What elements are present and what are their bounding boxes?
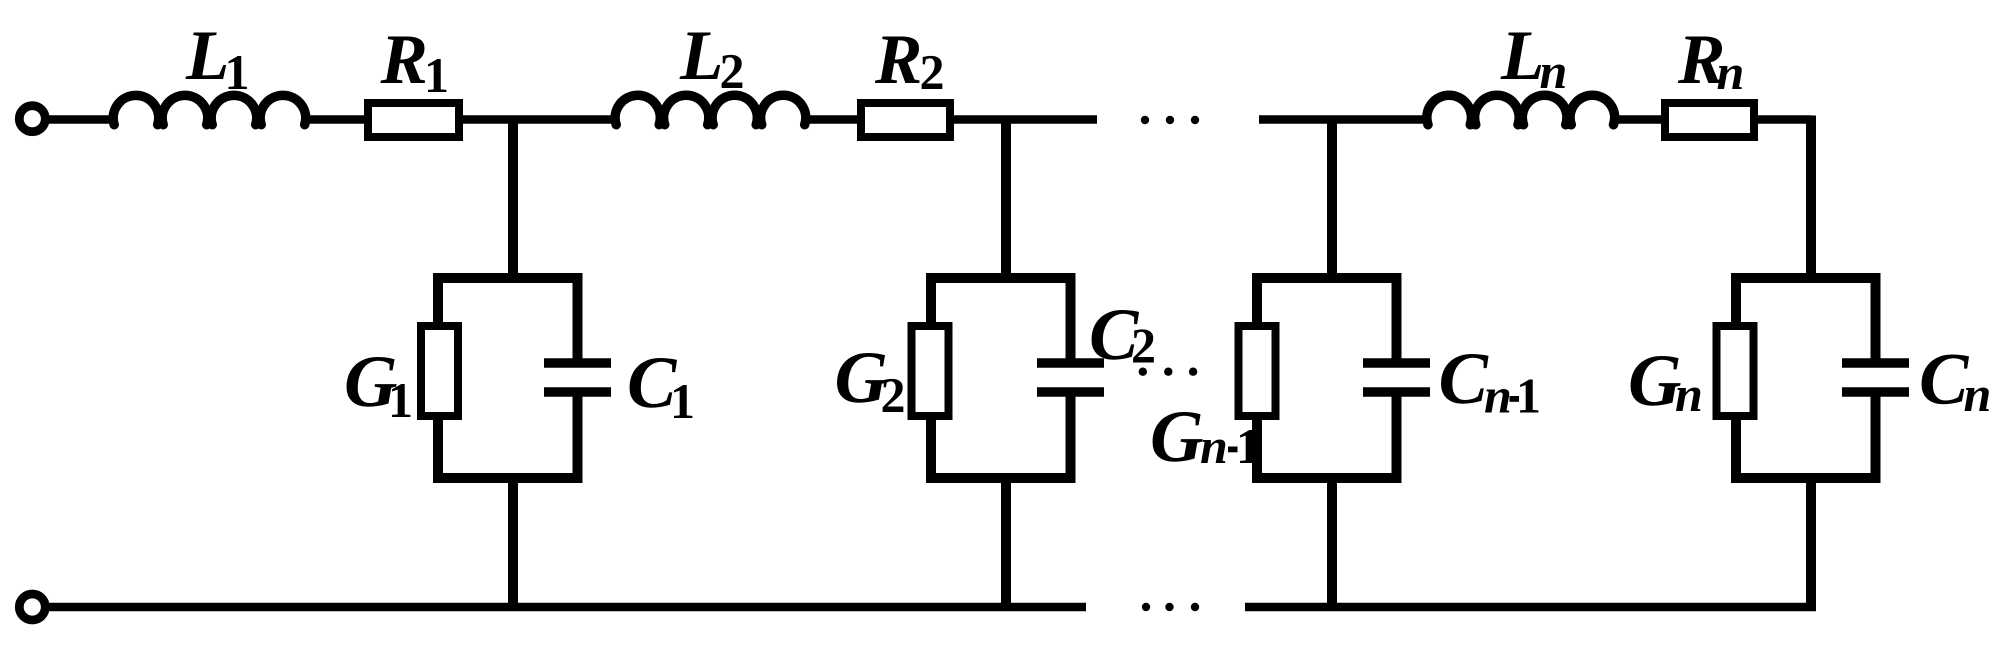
svg-text:1: 1 xyxy=(1516,368,1541,424)
svg-text:C: C xyxy=(1439,338,1490,420)
svg-text:n: n xyxy=(1675,366,1703,422)
svg-text:G: G xyxy=(1628,340,1681,422)
svg-text:1: 1 xyxy=(388,372,413,428)
svg-text:2: 2 xyxy=(881,367,906,423)
svg-text:n: n xyxy=(1200,418,1228,474)
svg-text:L: L xyxy=(1500,17,1544,95)
svg-text:1: 1 xyxy=(670,373,695,429)
svg-text:R: R xyxy=(874,21,922,99)
svg-text:R: R xyxy=(380,21,428,99)
svg-text:n: n xyxy=(1484,368,1512,424)
svg-text:G: G xyxy=(1150,396,1203,478)
svg-text:n: n xyxy=(1964,366,1992,422)
svg-text:L: L xyxy=(185,17,229,95)
svg-text:2: 2 xyxy=(920,44,945,100)
svg-text:C: C xyxy=(1919,339,1970,421)
svg-text:2: 2 xyxy=(720,43,745,99)
svg-text:2: 2 xyxy=(1131,318,1156,374)
svg-text:n: n xyxy=(1717,44,1745,100)
svg-text:1: 1 xyxy=(225,44,250,100)
svg-text:1: 1 xyxy=(424,47,449,103)
svg-text:1: 1 xyxy=(1236,418,1261,474)
svg-text:n: n xyxy=(1540,43,1568,99)
svg-text:L: L xyxy=(679,17,723,95)
